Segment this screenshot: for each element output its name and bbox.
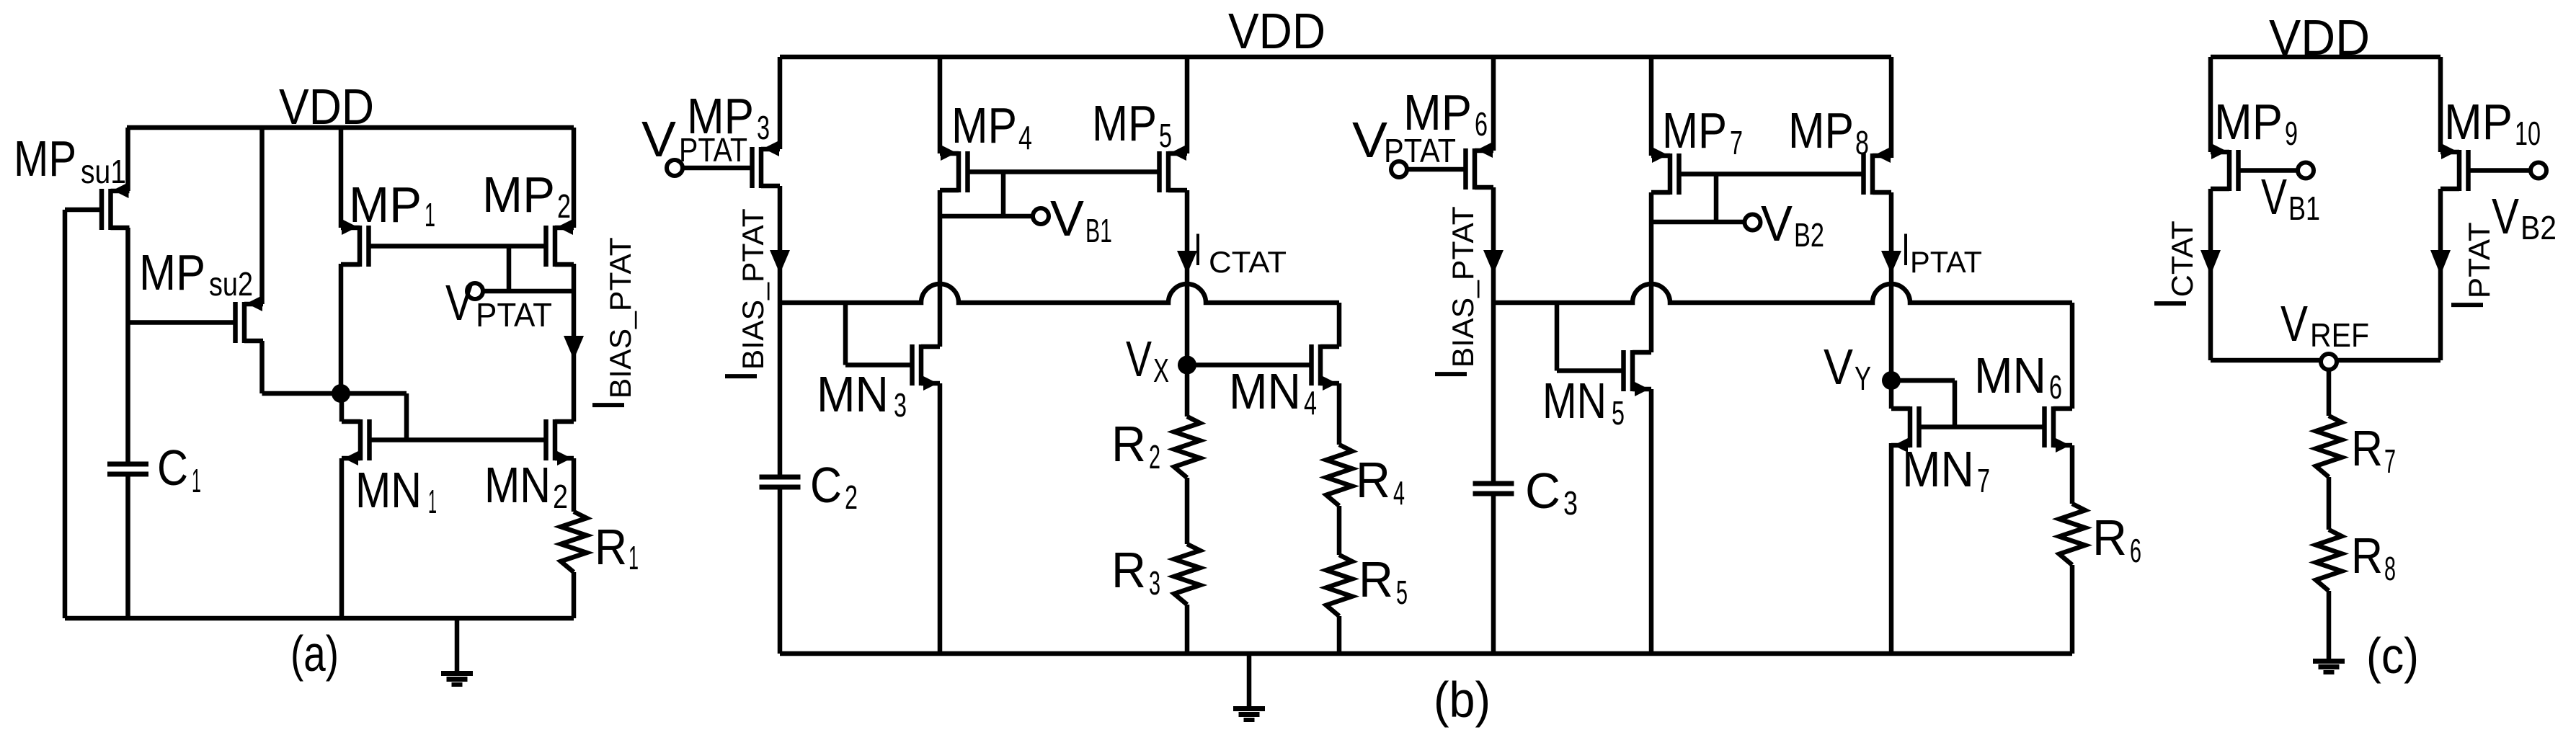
svg-text:3: 3 xyxy=(894,386,907,424)
svg-text:MN: MN xyxy=(1229,363,1301,419)
svg-text:7: 7 xyxy=(2384,442,2396,480)
svg-text:3: 3 xyxy=(1563,484,1578,522)
svg-text:1: 1 xyxy=(425,196,435,233)
svg-text:R: R xyxy=(1111,542,1146,598)
svg-text:X: X xyxy=(1153,352,1169,389)
svg-text:3: 3 xyxy=(757,109,770,146)
svg-text:Y: Y xyxy=(1855,360,1871,397)
svg-text:B2: B2 xyxy=(2521,209,2557,246)
svg-text:R: R xyxy=(1356,452,1390,508)
svg-text:2: 2 xyxy=(553,478,568,515)
svg-text:MP: MP xyxy=(1662,102,1727,159)
svg-text:9: 9 xyxy=(2285,115,2298,152)
svg-text:VDD: VDD xyxy=(279,79,374,135)
svg-text:V: V xyxy=(1824,339,1853,395)
svg-text:MN: MN xyxy=(1902,441,1974,497)
svg-text:MP: MP xyxy=(349,177,422,233)
svg-text:MP: MP xyxy=(14,130,76,187)
svg-text:PTAT: PTAT xyxy=(1910,245,1982,279)
svg-text:1: 1 xyxy=(428,483,437,520)
svg-text:6: 6 xyxy=(2049,368,2062,406)
svg-text:5: 5 xyxy=(1612,394,1625,432)
svg-text:V: V xyxy=(1126,331,1152,387)
svg-text:C: C xyxy=(157,440,188,496)
svg-text:8: 8 xyxy=(2384,550,2396,587)
svg-text:V: V xyxy=(1352,112,1387,168)
svg-text:10: 10 xyxy=(2515,115,2541,152)
svg-text:R: R xyxy=(2092,509,2127,566)
svg-text:I: I xyxy=(1194,225,1202,275)
svg-text:R: R xyxy=(1111,416,1146,472)
svg-text:MP: MP xyxy=(139,244,205,300)
svg-text:(c): (c) xyxy=(2366,628,2419,684)
svg-text:B1: B1 xyxy=(2288,190,2320,227)
svg-text:su2: su2 xyxy=(209,265,253,303)
svg-text:(a): (a) xyxy=(290,625,339,682)
svg-text:MN: MN xyxy=(355,462,422,518)
svg-text:2: 2 xyxy=(845,478,858,516)
svg-text:REF: REF xyxy=(2310,316,2369,354)
svg-text:1: 1 xyxy=(629,539,639,576)
svg-text:B1: B1 xyxy=(1085,212,1112,249)
svg-text:su1: su1 xyxy=(81,153,126,190)
svg-text:5: 5 xyxy=(1396,574,1408,611)
svg-text:R: R xyxy=(2351,527,2383,584)
svg-text:MP: MP xyxy=(951,97,1017,153)
svg-text:I: I xyxy=(1901,225,1910,275)
svg-text:MP: MP xyxy=(482,166,555,223)
svg-text:MP: MP xyxy=(1788,102,1854,159)
svg-text:V: V xyxy=(2261,169,2287,225)
svg-text:MN: MN xyxy=(1974,347,2046,404)
svg-text:R: R xyxy=(1359,551,1393,607)
svg-text:MN: MN xyxy=(1542,373,1607,429)
svg-text:C: C xyxy=(810,457,842,513)
svg-text:6: 6 xyxy=(1475,105,1488,143)
svg-text:4: 4 xyxy=(1304,384,1317,422)
svg-text:V: V xyxy=(1761,195,1793,251)
svg-text:CTAT: CTAT xyxy=(1209,245,1287,279)
svg-text:8: 8 xyxy=(1855,124,1869,161)
svg-text:V: V xyxy=(445,275,473,331)
svg-text:7: 7 xyxy=(1730,124,1743,161)
svg-text:5: 5 xyxy=(1159,117,1172,154)
svg-text:MP: MP xyxy=(1092,95,1157,151)
svg-text:(b): (b) xyxy=(1434,672,1491,728)
svg-text:R: R xyxy=(2351,420,2383,476)
svg-text:2: 2 xyxy=(1149,438,1160,476)
svg-text:PTAT: PTAT xyxy=(679,131,747,169)
svg-text:R: R xyxy=(595,519,627,575)
svg-text:1: 1 xyxy=(192,462,201,499)
svg-text:2: 2 xyxy=(557,187,571,225)
svg-text:MN: MN xyxy=(484,457,551,513)
svg-text:MP: MP xyxy=(2444,94,2513,150)
svg-text:V: V xyxy=(641,111,676,167)
svg-text:VDD: VDD xyxy=(2269,9,2370,66)
svg-text:3: 3 xyxy=(1149,564,1160,602)
svg-text:7: 7 xyxy=(1977,462,1990,499)
svg-text:PTAT: PTAT xyxy=(476,296,552,334)
svg-text:4: 4 xyxy=(1393,474,1405,512)
svg-text:VDD: VDD xyxy=(1228,3,1325,59)
svg-text:PTAT: PTAT xyxy=(1384,132,1456,169)
svg-text:4: 4 xyxy=(1018,119,1032,156)
svg-text:C: C xyxy=(1525,463,1560,519)
svg-text:B2: B2 xyxy=(1794,216,1824,254)
svg-text:MN: MN xyxy=(817,366,889,422)
svg-text:6: 6 xyxy=(2130,532,2141,569)
svg-text:V: V xyxy=(1050,190,1084,246)
svg-text:MP: MP xyxy=(2214,94,2283,150)
svg-text:V: V xyxy=(2280,295,2308,352)
